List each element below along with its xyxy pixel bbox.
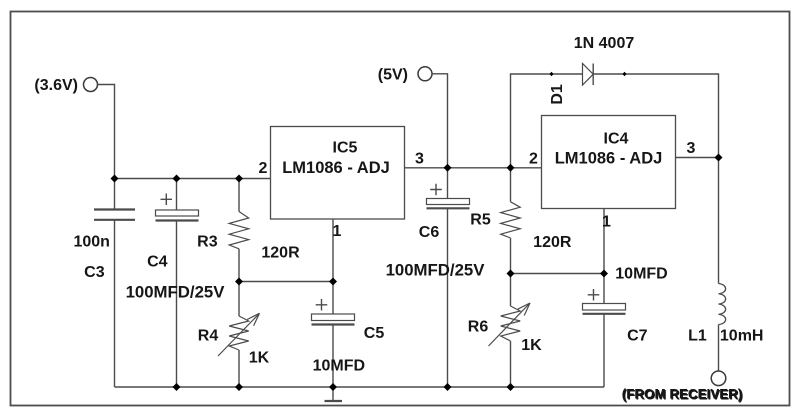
resistor R3 bbox=[229, 179, 249, 282]
svg-text:R4: R4 bbox=[198, 327, 219, 344]
wire left supply bus bbox=[115, 178, 271, 180]
wire bottom bus bbox=[115, 386, 605, 388]
svg-text:1K: 1K bbox=[249, 350, 270, 367]
terminal (3.6V) bbox=[84, 78, 98, 92]
node 3.6V bus / C3 bbox=[111, 175, 119, 183]
op-amp IC5 (regulator LM1086) bbox=[271, 127, 405, 220]
node R4 bottom bbox=[235, 383, 243, 391]
svg-text:IC5: IC5 bbox=[333, 140, 358, 157]
diode D1 bbox=[583, 64, 594, 86]
wire 3.6V input bbox=[97, 85, 114, 179]
node R3 top bbox=[235, 175, 243, 183]
svg-text:(FROM RECEIVER): (FROM RECEIVER) bbox=[622, 387, 743, 402]
wire IC5 pin1 bbox=[332, 219, 334, 282]
svg-text:120R: 120R bbox=[261, 244, 300, 261]
node diode wire tick right bbox=[623, 72, 627, 76]
svg-text:10MFD: 10MFD bbox=[313, 357, 365, 374]
node diode branch / R5 top bbox=[507, 164, 515, 172]
svg-text:1K: 1K bbox=[521, 337, 542, 354]
svg-text:10MFD: 10MFD bbox=[615, 265, 667, 282]
svg-text:L1: L1 bbox=[688, 328, 707, 345]
svg-text:(5V): (5V) bbox=[378, 67, 408, 84]
svg-text:1: 1 bbox=[602, 214, 611, 231]
capacitor C3 bbox=[94, 179, 135, 388]
svg-text:R5: R5 bbox=[470, 212, 491, 229]
node C4 bottom bbox=[173, 383, 181, 391]
wire 5V input bbox=[432, 74, 448, 168]
svg-text:3: 3 bbox=[415, 151, 424, 168]
svg-text:C7: C7 bbox=[627, 328, 648, 345]
inductor L1 bbox=[719, 158, 726, 372]
node 5V / pin3 bus bbox=[444, 164, 452, 172]
wire IC4 pin3 bbox=[676, 157, 719, 159]
node R6 bottom bbox=[507, 383, 515, 391]
variable resistor R6 bbox=[489, 274, 531, 388]
svg-text:1N 4007: 1N 4007 bbox=[574, 35, 635, 52]
svg-text:D1: D1 bbox=[549, 84, 566, 105]
node C6 bottom bbox=[444, 383, 452, 391]
svg-text:C4: C4 bbox=[147, 254, 168, 271]
svg-text:100MFD/25V: 100MFD/25V bbox=[386, 261, 486, 280]
node C5 bottom / ground bbox=[329, 383, 337, 391]
capacitor C7 bbox=[583, 274, 626, 388]
svg-text:LM1086 - ADJ: LM1086 - ADJ bbox=[282, 159, 390, 177]
svg-text:C6: C6 bbox=[419, 224, 440, 241]
node R5/R6 junction bbox=[507, 270, 515, 278]
wire R3/R4 node to C5 bbox=[239, 281, 333, 283]
svg-text:120R: 120R bbox=[533, 234, 572, 251]
capacitor C5 bbox=[312, 282, 355, 388]
wire IC5 pin3 bus bbox=[405, 167, 542, 169]
resistor R5 bbox=[501, 168, 521, 274]
svg-text:R3: R3 bbox=[197, 233, 218, 250]
wire IC4 pin1 bbox=[603, 209, 605, 274]
svg-text:1: 1 bbox=[333, 223, 342, 240]
node R3/R4 junction bbox=[235, 278, 243, 286]
wire diode to right rail bbox=[593, 74, 718, 158]
node C5 top bbox=[329, 278, 337, 286]
node diode wire tick left bbox=[550, 72, 554, 76]
node IC4 pin1 / C7 bbox=[600, 270, 608, 278]
svg-text:10mH: 10mH bbox=[720, 328, 764, 345]
svg-text:2: 2 bbox=[529, 150, 538, 167]
wire R5/R6 node to C7 bbox=[511, 273, 605, 275]
node C4 top bbox=[173, 175, 181, 183]
svg-text:C5: C5 bbox=[364, 325, 385, 342]
svg-text:IC4: IC4 bbox=[604, 131, 629, 148]
svg-text:2: 2 bbox=[259, 160, 268, 177]
capacitor C6 bbox=[427, 168, 470, 387]
variable resistor R4 bbox=[218, 282, 260, 388]
svg-text:(3.6V): (3.6V) bbox=[34, 77, 78, 94]
capacitor C4 bbox=[156, 179, 199, 388]
node IC4 pin3 / right rail bbox=[715, 154, 723, 162]
label (FROM RECEIVER) bbox=[622, 387, 744, 403]
ground bbox=[325, 387, 343, 401]
svg-text:C3: C3 bbox=[84, 264, 105, 281]
terminal (5V) bbox=[418, 67, 432, 81]
svg-text:100MFD/25V: 100MFD/25V bbox=[126, 283, 226, 302]
svg-text:3: 3 bbox=[687, 140, 696, 157]
svg-text:R6: R6 bbox=[468, 318, 489, 335]
op-amp IC4 (regulator LM1086) bbox=[542, 116, 676, 209]
terminal (FROM RECEIVER) bbox=[711, 371, 726, 386]
svg-text:LM1086 - ADJ: LM1086 - ADJ bbox=[555, 150, 663, 168]
svg-text:100n: 100n bbox=[73, 233, 109, 250]
wire diode branch left bbox=[511, 74, 583, 168]
